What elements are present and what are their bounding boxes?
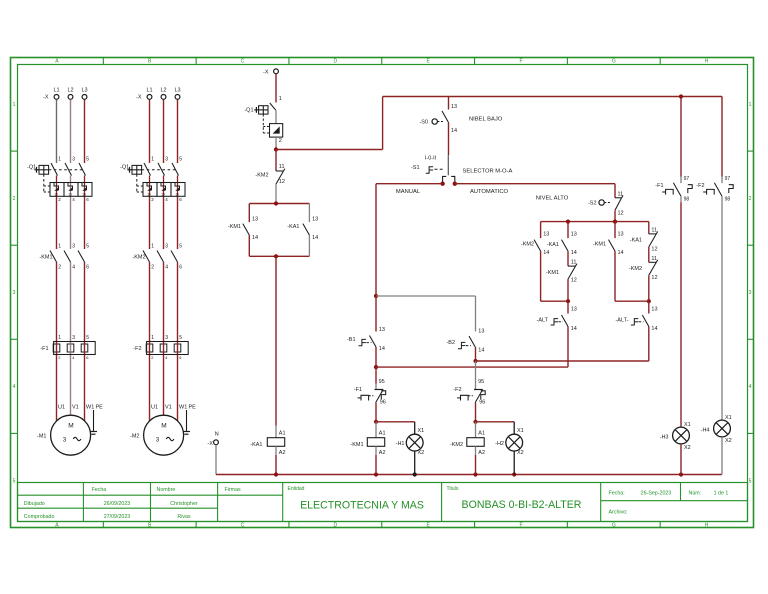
svg-text:-S2: -S2 <box>588 201 597 207</box>
svg-text:14: 14 <box>252 235 258 241</box>
svg-text:1: 1 <box>279 96 282 102</box>
svg-text:11: 11 <box>279 164 285 170</box>
svg-text:1: 1 <box>13 102 16 108</box>
svg-text:-H2: -H2 <box>495 441 504 447</box>
svg-text:3: 3 <box>749 290 752 296</box>
svg-text:Firmas: Firmas <box>225 487 242 493</box>
svg-text:13: 13 <box>618 232 624 238</box>
svg-text:12: 12 <box>651 246 657 252</box>
svg-text:3: 3 <box>72 335 75 341</box>
svg-text:C: C <box>241 523 245 529</box>
svg-text:PE: PE <box>96 405 104 411</box>
svg-text:13: 13 <box>252 217 258 223</box>
svg-text:F: F <box>519 523 522 529</box>
svg-text:1: 1 <box>749 102 752 108</box>
svg-text:L1: L1 <box>146 88 152 94</box>
svg-text:5: 5 <box>179 335 182 341</box>
svg-text:X2: X2 <box>684 445 691 451</box>
svg-text:-KA1: -KA1 <box>630 237 642 243</box>
svg-text:Titulo: Titulo <box>447 486 459 492</box>
svg-text:3: 3 <box>13 290 16 296</box>
svg-text:2: 2 <box>749 196 752 202</box>
svg-text:98: 98 <box>725 197 731 203</box>
svg-text:-KM2: -KM2 <box>521 242 534 248</box>
svg-text:15: 15 <box>68 192 72 196</box>
svg-text:-KA1: -KA1 <box>547 242 559 248</box>
svg-text:5: 5 <box>86 335 89 341</box>
svg-text:A1: A1 <box>478 431 485 437</box>
svg-text:97: 97 <box>725 176 731 182</box>
svg-text:X1: X1 <box>517 428 524 434</box>
svg-text:G: G <box>612 59 616 65</box>
svg-text:11: 11 <box>651 227 657 233</box>
svg-text:13: 13 <box>651 307 657 313</box>
svg-text:-F1: -F1 <box>40 346 48 352</box>
svg-text:X1: X1 <box>684 422 691 428</box>
svg-text:1: 1 <box>58 157 61 163</box>
svg-text:X2: X2 <box>418 450 425 456</box>
svg-text:14: 14 <box>451 128 457 134</box>
svg-text:96: 96 <box>380 400 386 406</box>
svg-text:L2: L2 <box>160 88 166 94</box>
svg-text:Entidad: Entidad <box>288 486 305 492</box>
svg-text:11: 11 <box>571 260 577 266</box>
svg-text:2: 2 <box>58 265 61 271</box>
svg-text:A1: A1 <box>279 431 286 437</box>
svg-text:-H4: -H4 <box>701 428 710 434</box>
svg-text:-KM1: -KM1 <box>228 224 241 230</box>
svg-text:-X: -X <box>136 95 142 101</box>
svg-text:1 de 1: 1 de 1 <box>714 490 729 496</box>
svg-text:AUTOMATICO: AUTOMATICO <box>470 189 509 195</box>
svg-text:-KM1: -KM1 <box>546 270 559 276</box>
svg-text:6: 6 <box>179 265 182 271</box>
svg-text:98: 98 <box>684 197 690 203</box>
svg-text:13: 13 <box>478 328 484 334</box>
svg-text:12: 12 <box>279 179 285 185</box>
svg-text:14: 14 <box>379 346 385 352</box>
svg-text:14: 14 <box>478 347 484 353</box>
svg-text:X1: X1 <box>418 428 425 434</box>
svg-text:3: 3 <box>165 335 168 341</box>
svg-text:-F1: -F1 <box>655 183 663 189</box>
svg-text:ELECTROTECNIA Y MAS: ELECTROTECNIA Y MAS <box>300 500 424 512</box>
svg-text:U1: U1 <box>58 405 65 411</box>
svg-text:-KM1: -KM1 <box>593 242 606 248</box>
svg-text:15: 15 <box>147 192 151 196</box>
svg-text:-Q1: -Q1 <box>244 108 253 114</box>
svg-text:Christopher: Christopher <box>170 501 198 507</box>
svg-text:15: 15 <box>82 192 86 196</box>
svg-text:2: 2 <box>279 138 282 144</box>
svg-text:A1: A1 <box>379 431 386 437</box>
svg-text:-KM1: -KM1 <box>39 255 52 261</box>
svg-text:1: 1 <box>151 335 154 341</box>
svg-text:-KM2: -KM2 <box>629 266 642 272</box>
svg-text:-H3: -H3 <box>660 435 669 441</box>
svg-text:12: 12 <box>618 210 624 216</box>
svg-text:-H1: -H1 <box>396 441 405 447</box>
svg-text:M: M <box>68 423 73 430</box>
svg-text:1: 1 <box>58 335 61 341</box>
svg-text:V1: V1 <box>72 405 79 411</box>
svg-text:95: 95 <box>478 379 484 385</box>
svg-text:13: 13 <box>451 104 457 110</box>
svg-text:F: F <box>519 59 522 65</box>
svg-text:-KM2: -KM2 <box>132 255 145 261</box>
svg-text:4: 4 <box>749 384 752 390</box>
svg-text:14: 14 <box>651 326 657 332</box>
svg-text:13: 13 <box>571 232 577 238</box>
svg-text:-KA1: -KA1 <box>250 442 262 448</box>
svg-text:4: 4 <box>13 384 16 390</box>
svg-text:V1: V1 <box>165 405 172 411</box>
svg-text:27/09/2023: 27/09/2023 <box>104 514 131 520</box>
svg-text:15: 15 <box>175 192 179 196</box>
svg-text:-F1: -F1 <box>354 387 362 393</box>
svg-text:-ALT: -ALT <box>536 318 548 324</box>
svg-text:4: 4 <box>72 265 75 271</box>
svg-text:-M2: -M2 <box>130 434 139 440</box>
svg-text:Fecha: Fecha <box>92 487 107 493</box>
svg-text:2: 2 <box>151 265 154 271</box>
svg-text:96: 96 <box>479 400 485 406</box>
svg-text:SELECTOR M-O-A: SELECTOR M-O-A <box>463 169 513 175</box>
svg-text:D: D <box>334 523 338 529</box>
svg-text:5: 5 <box>13 478 16 484</box>
svg-text:Archivo:: Archivo: <box>609 510 628 516</box>
svg-text:12: 12 <box>651 275 657 281</box>
svg-text:1: 1 <box>151 157 154 163</box>
svg-text:A2: A2 <box>478 450 485 456</box>
svg-text:Núm:: Núm: <box>689 490 702 496</box>
svg-text:13: 13 <box>379 327 385 333</box>
svg-text:A2: A2 <box>379 450 386 456</box>
svg-text:-KM2: -KM2 <box>255 173 268 179</box>
svg-text:26/09/2023: 26/09/2023 <box>104 501 131 507</box>
svg-text:5: 5 <box>86 157 89 163</box>
svg-text:-KA1: -KA1 <box>287 224 299 230</box>
svg-text:W1: W1 <box>179 405 187 411</box>
svg-text:-F2: -F2 <box>453 387 461 393</box>
svg-text:-F2: -F2 <box>696 183 704 189</box>
svg-text:X2: X2 <box>725 438 732 444</box>
svg-text:I-0-II: I-0-II <box>425 156 437 162</box>
svg-text:12: 12 <box>571 278 577 284</box>
svg-text:5: 5 <box>86 244 89 250</box>
svg-text:97: 97 <box>684 176 690 182</box>
svg-text:-KM1: -KM1 <box>350 442 363 448</box>
svg-text:-X: -X <box>207 441 213 447</box>
svg-text:Rivas: Rivas <box>177 514 191 520</box>
svg-text:H: H <box>705 59 709 65</box>
svg-text:D: D <box>334 59 338 65</box>
svg-text:3: 3 <box>165 244 168 250</box>
svg-text:L1: L1 <box>53 88 59 94</box>
svg-text:G: G <box>612 523 616 529</box>
svg-text:Fecha:: Fecha: <box>609 490 625 496</box>
svg-text:Dibujado: Dibujado <box>24 501 45 507</box>
svg-text:13: 13 <box>543 232 549 238</box>
svg-text:3: 3 <box>72 244 75 250</box>
svg-text:M: M <box>161 423 166 430</box>
svg-text:14: 14 <box>618 250 624 256</box>
svg-text:15: 15 <box>54 192 58 196</box>
svg-text:H: H <box>705 523 709 529</box>
svg-text:14: 14 <box>571 250 577 256</box>
svg-text:L3: L3 <box>174 88 180 94</box>
svg-text:L3: L3 <box>81 88 87 94</box>
svg-text:-F2: -F2 <box>133 346 141 352</box>
svg-text:MANUAL: MANUAL <box>396 189 421 195</box>
svg-text:C: C <box>241 59 245 65</box>
svg-text:A2: A2 <box>279 450 286 456</box>
svg-text:Comprobado: Comprobado <box>24 514 55 520</box>
svg-text:L2: L2 <box>67 88 73 94</box>
svg-text:Nombre: Nombre <box>157 487 176 493</box>
svg-text:X1: X1 <box>725 415 732 421</box>
svg-text:1: 1 <box>151 244 154 250</box>
svg-text:BONBAS 0-BI-B2-ALTER: BONBAS 0-BI-B2-ALTER <box>462 499 582 511</box>
svg-text:NIBEL BAJO: NIBEL BAJO <box>469 117 503 123</box>
svg-text:5: 5 <box>179 244 182 250</box>
svg-text:-S0: -S0 <box>419 120 428 126</box>
svg-text:-B2: -B2 <box>446 340 455 346</box>
svg-text:-M1: -M1 <box>37 434 46 440</box>
svg-text:4: 4 <box>165 265 168 271</box>
svg-text:14: 14 <box>543 250 549 256</box>
svg-text:2: 2 <box>13 196 16 202</box>
svg-text:-X: -X <box>43 95 49 101</box>
svg-text:N: N <box>215 432 219 438</box>
svg-text:95: 95 <box>379 379 385 385</box>
svg-text:5: 5 <box>179 157 182 163</box>
svg-text:14: 14 <box>312 235 318 241</box>
svg-text:1: 1 <box>58 244 61 250</box>
svg-text:NIVEL ALTO: NIVEL ALTO <box>536 195 569 201</box>
svg-text:5: 5 <box>749 478 752 484</box>
svg-text:-ALT-: -ALT- <box>615 318 628 324</box>
svg-text:6: 6 <box>86 265 89 271</box>
svg-text:W1: W1 <box>86 405 94 411</box>
svg-text:26-Sep-2023: 26-Sep-2023 <box>641 490 672 496</box>
svg-text:13: 13 <box>571 307 577 313</box>
svg-text:3: 3 <box>72 157 75 163</box>
svg-text:11: 11 <box>651 256 657 262</box>
svg-text:15: 15 <box>161 192 165 196</box>
svg-text:-X: -X <box>263 70 269 76</box>
svg-text:PE: PE <box>189 405 197 411</box>
svg-text:-B1: -B1 <box>347 337 356 343</box>
svg-text:3: 3 <box>165 157 168 163</box>
svg-text:13: 13 <box>312 217 318 223</box>
svg-text:U1: U1 <box>151 405 158 411</box>
svg-text:X2: X2 <box>517 450 524 456</box>
svg-text:-S1: -S1 <box>411 165 420 171</box>
svg-text:14: 14 <box>571 326 577 332</box>
svg-text:-KM2: -KM2 <box>450 442 463 448</box>
